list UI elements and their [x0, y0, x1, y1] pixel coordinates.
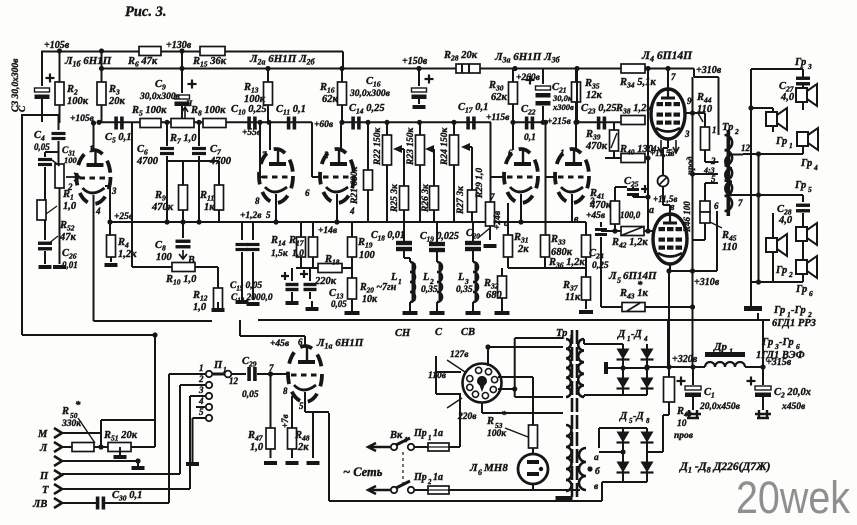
svg-text:9: 9: [687, 96, 692, 106]
svg-text:0,01: 0,01: [62, 260, 78, 270]
svg-text:Л: Л: [39, 443, 48, 454]
svg-text:127в: 127в: [450, 350, 469, 360]
svg-text:8: 8: [255, 196, 260, 206]
svg-text:R21 680к: R21 680к: [350, 166, 360, 205]
svg-text:1: 1: [569, 333, 573, 342]
svg-text:220в: 220в: [457, 412, 477, 422]
svg-text:5: 5: [199, 407, 204, 417]
svg-text:0,35: 0,35: [456, 285, 473, 295]
svg-text:20wek: 20wek: [736, 472, 850, 520]
svg-text:Д: Д: [617, 329, 626, 340]
svg-text:Пр: Пр: [413, 428, 427, 439]
svg-text:Т: Т: [42, 485, 49, 496]
svg-text:-Гр: -Гр: [791, 305, 806, 316]
svg-text:6: 6: [809, 289, 813, 298]
svg-text:1: 1: [712, 125, 717, 135]
svg-text:Л1б 6Н1П: Л1б 6Н1П: [64, 55, 112, 69]
svg-text:3: 3: [111, 186, 117, 196]
svg-text:2к: 2к: [297, 442, 309, 453]
svg-text:R5 100к: R5 100к: [131, 105, 167, 118]
svg-text:Тр: Тр: [556, 328, 567, 339]
svg-text:10: 10: [677, 419, 687, 429]
svg-text:12: 12: [741, 143, 751, 153]
svg-text:R23 150к: R23 150к: [406, 127, 416, 166]
svg-text:+24в: +24в: [493, 210, 503, 230]
svg-text:ЛВ: ЛВ: [32, 499, 47, 510]
svg-text:R25 3к: R25 3к: [390, 183, 400, 213]
svg-text:1а: 1а: [433, 428, 443, 439]
svg-text:1,5к: 1,5к: [271, 249, 289, 259]
svg-text:1ГД1 ВЭФ: 1ГД1 ВЭФ: [756, 350, 805, 361]
svg-text:7: 7: [262, 150, 267, 160]
svg-text:1,0: 1,0: [63, 201, 77, 212]
svg-text:+25в: +25в: [114, 212, 134, 222]
svg-text:Гр: Гр: [775, 265, 787, 276]
svg-text:110: 110: [722, 242, 738, 253]
svg-text:~ Сеть: ~ Сеть: [343, 465, 383, 479]
svg-text:С14 0,25: С14 0,25: [349, 103, 385, 116]
svg-text:2: 2: [788, 270, 793, 279]
svg-text:8: 8: [646, 417, 650, 425]
svg-text:1,2к: 1,2к: [118, 249, 137, 260]
svg-text:С2 20,0х: С2 20,0х: [774, 387, 811, 400]
svg-text:4: 4: [813, 163, 818, 172]
svg-text:R40 130: R40 130: [619, 144, 654, 157]
svg-text:С19 0,025: С19 0,025: [420, 231, 459, 244]
svg-text:С17 0,1: С17 0,1: [458, 102, 488, 115]
svg-text:Л4 6П14П: Л4 6П14П: [641, 50, 693, 64]
svg-text:Вк: Вк: [389, 430, 403, 441]
svg-text:3: 3: [807, 62, 812, 71]
svg-text:а: а: [594, 453, 599, 463]
svg-text:Л1а 6Н1П: Л1а 6Н1П: [316, 337, 364, 351]
svg-text:С18 0,01: С18 0,01: [371, 230, 405, 243]
svg-text:100: 100: [64, 155, 78, 165]
svg-text:R27 3к: R27 3к: [456, 185, 466, 215]
svg-text:Др: Др: [713, 341, 728, 353]
svg-text:5: 5: [299, 401, 304, 411]
svg-text:R51 20к: R51 20к: [103, 430, 138, 443]
svg-text:R43 1к: R43 1к: [619, 288, 648, 301]
svg-text:11к: 11к: [565, 292, 581, 303]
svg-text:С3 30,0х300в: С3 30,0х300в: [11, 58, 21, 112]
svg-text:7: 7: [269, 363, 274, 373]
svg-text:20,0х450в: 20,0х450в: [699, 402, 741, 412]
svg-text:4,0: 4,0: [780, 92, 795, 103]
svg-text:в: в: [574, 214, 579, 225]
svg-text:R26 3к: R26 3к: [421, 183, 431, 213]
svg-text:0,35: 0,35: [421, 285, 438, 295]
svg-text:С30 0,1: С30 0,1: [112, 490, 142, 503]
svg-text:+310в: +310в: [696, 65, 722, 76]
svg-text:1: 1: [789, 141, 793, 150]
svg-text:1: 1: [89, 144, 94, 154]
svg-text:6: 6: [508, 148, 513, 158]
svg-text:470к: 470к: [151, 202, 174, 213]
svg-text:+45в: +45в: [270, 339, 290, 349]
svg-text:100к: 100к: [67, 96, 89, 107]
svg-text:1: 1: [398, 277, 402, 286]
svg-text:Гр: Гр: [794, 180, 806, 191]
svg-text:6: 6: [305, 188, 310, 198]
svg-text:8: 8: [283, 386, 288, 396]
svg-text:С15 0,05: С15 0,05: [230, 281, 262, 293]
svg-text:680: 680: [486, 290, 503, 301]
svg-text:С23 0,25: С23 0,25: [581, 103, 617, 116]
svg-text:10к: 10к: [362, 294, 378, 305]
svg-text:7: 7: [738, 198, 743, 208]
svg-text:L: L: [457, 272, 464, 283]
svg-text:100,0: 100,0: [620, 210, 641, 220]
svg-text:30,0х300в: 30,0х300в: [349, 89, 391, 99]
svg-text:+215в: +215в: [547, 117, 572, 127]
svg-text:R: R: [486, 416, 494, 427]
svg-text:0,05: 0,05: [242, 390, 259, 400]
svg-text:5: 5: [266, 210, 271, 220]
svg-text:С10 0,25: С10 0,25: [231, 104, 267, 117]
svg-text:5: 5: [808, 185, 812, 194]
svg-text:х450в: х450в: [781, 402, 806, 412]
svg-text:1: 1: [428, 434, 432, 442]
svg-text:4: 4: [643, 335, 648, 343]
svg-text:7: 7: [490, 192, 495, 202]
svg-text:в: в: [670, 202, 675, 213]
svg-text:220к: 220к: [314, 276, 337, 287]
svg-text:47к: 47к: [59, 232, 77, 243]
svg-text:R15 36к: R15 36к: [192, 56, 227, 69]
svg-text:7: 7: [671, 72, 676, 82]
svg-text:1к: 1к: [204, 202, 215, 213]
svg-text:+14в: +14в: [318, 226, 338, 236]
svg-text:Гр: Гр: [794, 57, 806, 68]
svg-text:-Д: -Д: [631, 329, 642, 340]
svg-text:3: 3: [684, 129, 690, 139]
svg-text:R8 100к: R8 100к: [190, 105, 226, 118]
svg-text:+55в: +55в: [242, 128, 262, 138]
svg-text:+150в: +150в: [402, 56, 428, 67]
svg-text:СВ: СВ: [461, 327, 475, 338]
svg-text:*: *: [501, 409, 507, 421]
svg-text:6: 6: [714, 201, 719, 211]
svg-text:1,0: 1,0: [292, 249, 304, 259]
svg-text:4: 4: [198, 396, 204, 406]
svg-text:4: 4: [95, 206, 101, 216]
svg-text:R46 100: R46 100: [682, 201, 692, 233]
svg-text:R20 ~7гн: R20 ~7гн: [359, 282, 397, 295]
svg-text:С11 0,1: С11 0,1: [276, 104, 306, 117]
svg-text:3: 3: [198, 385, 204, 395]
svg-text:МН8: МН8: [483, 462, 508, 474]
svg-text:2к: 2к: [517, 244, 529, 255]
svg-text:а: а: [649, 205, 654, 216]
svg-text:2: 2: [710, 156, 716, 166]
svg-text:+45в: +45в: [586, 211, 606, 221]
svg-text:*: *: [75, 399, 81, 411]
svg-text:R22 150к: R22 150к: [373, 127, 383, 166]
svg-text:М: М: [37, 429, 48, 440]
svg-text:12к: 12к: [586, 90, 603, 101]
svg-text:1а: 1а: [433, 472, 443, 483]
svg-text:1: 1: [223, 365, 227, 374]
svg-text:L: L: [390, 272, 397, 283]
svg-text:2: 2: [198, 374, 204, 384]
svg-text:R34 5,1к: R34 5,1к: [619, 77, 656, 90]
svg-text:6: 6: [478, 468, 482, 477]
svg-text:100: 100: [359, 250, 376, 261]
svg-text:5: 5: [617, 276, 621, 285]
svg-text:+7в: +7в: [280, 414, 290, 428]
svg-text:5: 5: [711, 174, 716, 184]
svg-text:470к: 470к: [589, 200, 612, 211]
svg-text:Гр: Гр: [775, 136, 787, 147]
svg-text:С: С: [435, 327, 443, 338]
svg-text:Л: Л: [469, 462, 478, 474]
svg-text:Гр: Гр: [773, 305, 785, 316]
svg-text:470к: 470к: [585, 141, 608, 152]
svg-text:СН: СН: [395, 328, 411, 339]
svg-text:4: 4: [349, 206, 355, 216]
svg-text:20к: 20к: [108, 96, 126, 107]
svg-text:R: R: [61, 406, 69, 417]
svg-text:6: 6: [298, 337, 303, 347]
svg-text:1: 1: [560, 148, 565, 158]
svg-text:R24 150к: R24 150к: [440, 127, 450, 166]
svg-text:2: 2: [323, 150, 329, 160]
svg-text:12: 12: [229, 376, 239, 386]
svg-text:4700: 4700: [136, 156, 159, 167]
svg-text:х300в: х300в: [552, 102, 574, 112]
svg-text:пров: пров: [674, 431, 694, 441]
svg-text:1,0: 1,0: [193, 302, 207, 313]
svg-text:L: L: [422, 272, 429, 283]
svg-text:2: 2: [734, 127, 739, 136]
svg-text:6П14П: 6П14П: [623, 270, 657, 282]
svg-text:Пр: Пр: [413, 472, 427, 483]
svg-text:+105в: +105в: [44, 40, 70, 51]
svg-text:1,0: 1,0: [250, 442, 264, 453]
svg-text:-Д: -Д: [633, 411, 644, 422]
svg-text:R6 47к: R6 47к: [127, 56, 158, 69]
svg-text:2: 2: [427, 478, 432, 486]
svg-text:Гр: Гр: [795, 284, 807, 295]
svg-text:+320в: +320в: [672, 354, 698, 365]
svg-text:С5 0,1: С5 0,1: [105, 132, 132, 145]
svg-text:100к: 100к: [487, 429, 507, 439]
svg-text:R10 1,0: R10 1,0: [165, 274, 197, 287]
svg-text:62к: 62к: [491, 92, 508, 103]
svg-text:1: 1: [199, 363, 204, 373]
svg-text:100: 100: [156, 252, 173, 263]
svg-text:Рис. 3.: Рис. 3.: [125, 4, 166, 20]
svg-text:0,1: 0,1: [524, 133, 536, 143]
svg-text:Гр: Гр: [761, 337, 773, 348]
svg-text:30,0х300в: 30,0х300в: [139, 92, 181, 102]
svg-text:1: 1: [627, 335, 631, 343]
svg-text:-Гр: -Гр: [779, 337, 794, 348]
svg-text:0,05: 0,05: [331, 299, 347, 309]
svg-text:Д: Д: [619, 411, 628, 422]
svg-text:Л: Л: [608, 270, 617, 282]
svg-text:П: П: [213, 360, 223, 371]
svg-text:1: 1: [729, 347, 733, 356]
svg-text:R29 1,0: R29 1,0: [475, 168, 485, 199]
svg-text:+260в: +260в: [516, 73, 541, 83]
svg-text:П: П: [39, 471, 49, 482]
svg-text:1: 1: [404, 435, 408, 444]
svg-text:R38 1,2к: R38 1,2к: [615, 103, 652, 116]
svg-text:Гр: Гр: [800, 158, 812, 169]
svg-text:+1,2в: +1,2в: [240, 211, 262, 221]
svg-text:+115в: +115в: [486, 113, 510, 123]
svg-text:Тр: Тр: [722, 122, 733, 133]
svg-text:62к: 62к: [322, 94, 339, 105]
svg-text:+310в: +310в: [694, 277, 720, 288]
svg-text:R7 1,0: R7 1,0: [169, 133, 197, 146]
svg-text:R42 1,2к: R42 1,2к: [611, 237, 648, 250]
svg-text:0,05: 0,05: [34, 142, 50, 152]
svg-text:+130в: +130в: [166, 40, 192, 51]
svg-text:6ГД1 РР3: 6ГД1 РР3: [772, 318, 816, 329]
svg-text:4,0: 4,0: [778, 215, 793, 226]
svg-text:+60в: +60в: [314, 120, 334, 130]
svg-text:R28 20к: R28 20к: [443, 50, 478, 63]
